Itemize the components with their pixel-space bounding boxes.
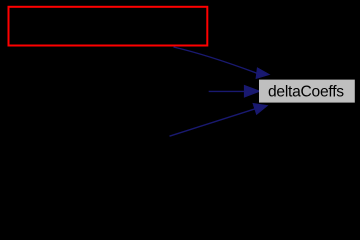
wire: edge 3 from lower-left to deltaCoeffs	[170, 109, 255, 136]
graph canvas	[0, 0, 360, 183]
wire: edge 1 from red node to deltaCoeffs	[174, 47, 257, 73]
arrowhead of edge 3	[253, 104, 267, 115]
arrowhead of edge 1	[256, 68, 269, 79]
node: red truncated node (top-left)	[9, 7, 208, 46]
arrowhead of edge 2	[244, 86, 259, 98]
wire: edge 2 horizontal into deltaCoeffs	[209, 90, 246, 92]
svg-text:deltaCoeffs: deltaCoeffs	[268, 84, 344, 101]
node deltaCoeffs	[259, 80, 355, 103]
